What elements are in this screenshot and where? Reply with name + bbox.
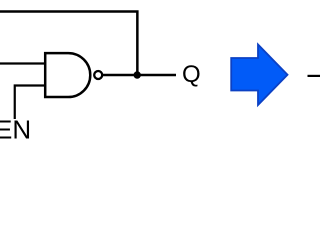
nand gate U1 body (45, 53, 90, 97)
blue arrow (implies transformation) (231, 45, 287, 106)
nand gate U1 inversion bubble (94, 71, 102, 79)
wire input top (from left edge to gate) (0, 62, 46, 64)
svg-text:Q: Q (182, 61, 201, 88)
svg-text:EN: EN (0, 115, 31, 145)
junction node dot (134, 71, 141, 78)
wire output Q (103, 74, 176, 76)
wire feedback top: from left edge to corner then down to output node (0, 12, 137, 76)
wire right stub (next stage) (308, 75, 320, 77)
wire EN input: vertical from label up, then right to gate (15, 86, 46, 120)
